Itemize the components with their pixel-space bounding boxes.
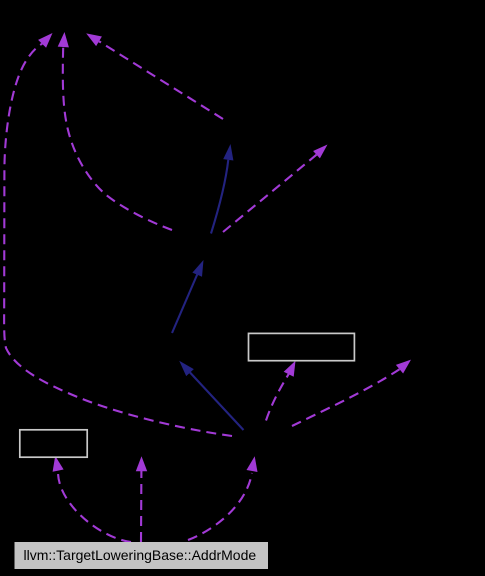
arrowhead of E7 at node G [247, 456, 258, 472]
wire: edge E1 dashed (node G lower-left sweep up to top-left node T1) [4, 44, 232, 437]
arrowhead of E4 at node T2b [313, 145, 327, 159]
arrowhead of E6 at far-right node [396, 360, 411, 374]
arrowhead of E12 at node M [192, 260, 203, 277]
node llvm::TargetLoweringBase::AddrMode (grey filled box) [15, 542, 269, 569]
arrowhead of E2 at node T1 [58, 32, 69, 47]
arrowhead of E1 at node T1 [38, 33, 52, 48]
arrowhead of E11 at node C [179, 361, 194, 376]
wire: edge E2 dashed (node M up to top-left node T1) [63, 47, 172, 230]
wire: edge E9 dashed (AddrMode box straight up to hidden node) [140, 471, 142, 542]
wire: edge E4 dashed (node M up-right to node T2b) [223, 155, 317, 232]
wire: edge E3 dashed (node T2a up-left to top-left node T1) [99, 41, 223, 119]
arrowhead of E9 at hidden node [136, 456, 147, 471]
arrowhead of E5 at box B2 [284, 361, 296, 377]
wire: edge E7 dashed (AddrMode box up-right to node G) [188, 473, 252, 540]
svg-text:llvm::TargetLoweringBase::Addr: llvm::TargetLoweringBase::AddrMode [24, 547, 257, 563]
wire: edge E6 dashed (node G up-right to far-right node) [292, 369, 400, 426]
wire: edge E13 solid blue (node M up to node T2a) [211, 160, 228, 234]
wire: edge E11 solid blue (node G up-left to node C) [190, 373, 244, 431]
node box B1 (empty, grey outline) [20, 430, 87, 457]
arrowhead of E3 at node T1 [86, 33, 102, 46]
arrowhead of E13 at node T2a [223, 144, 233, 161]
wire: edge E12 solid blue (node C up-right to node M) [172, 275, 197, 334]
node box B2 (empty, grey outline) [249, 333, 355, 360]
wire: edge E8 dashed (AddrMode box up-left to box B1) [58, 472, 131, 542]
arrowhead of E8 at box B1 [53, 456, 64, 472]
wire: edge E5 dashed (node G up to box B2) [266, 374, 289, 421]
